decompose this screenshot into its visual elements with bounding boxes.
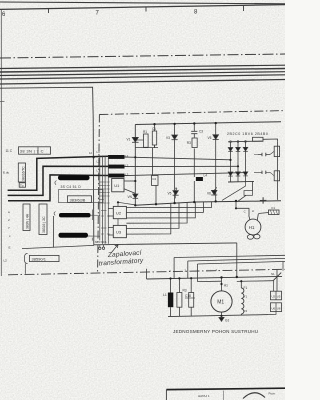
svg-text:C18: C18: [185, 294, 191, 298]
svg-text:S1: S1: [271, 272, 275, 276]
svg-text:L3: L3: [125, 172, 129, 176]
svg-text:R1: R1: [143, 130, 147, 134]
svg-text:U2: U2: [272, 295, 276, 299]
svg-text:V5: V5: [208, 136, 212, 140]
svg-text:L2: L2: [4, 259, 8, 263]
svg-text:E.du: E.du: [3, 171, 10, 175]
svg-text:H1: H1: [249, 225, 255, 230]
svg-text:V3: V3: [166, 136, 170, 140]
svg-text:U3: U3: [116, 230, 122, 235]
svg-text:L2: L2: [125, 163, 129, 167]
svg-text:E: E: [9, 246, 11, 250]
svg-text:383N | 4A: 383N | 4A: [26, 213, 30, 229]
svg-text:Pozn: Pozn: [269, 392, 276, 396]
svg-text:F1: F1: [244, 286, 248, 290]
svg-text:R3: R3: [183, 289, 187, 293]
svg-text:383/6|3B: 383/6|3B: [70, 197, 86, 202]
svg-text:V1: V1: [127, 138, 131, 142]
svg-text:A1: A1: [224, 284, 228, 288]
svg-text:VN: VN: [128, 195, 133, 199]
svg-text:L1: L1: [125, 154, 129, 158]
svg-text:F1: F1: [272, 206, 276, 210]
svg-text:U6: U6: [272, 307, 276, 311]
svg-text:38316 | 2C: 38316 | 2C: [42, 216, 46, 233]
svg-text:C2: C2: [152, 177, 156, 181]
svg-text:Y2: Y2: [244, 309, 248, 313]
svg-text:L3: L3: [97, 169, 101, 173]
svg-text:38316/7C: 38316/7C: [21, 166, 25, 181]
svg-text:Y1: Y1: [244, 295, 248, 299]
svg-text:U5: U5: [277, 295, 281, 299]
svg-text:60.3 60.1: 60.3 60.1: [95, 240, 107, 244]
svg-text:V5: V5: [168, 192, 172, 196]
svg-text:C1: C1: [152, 127, 156, 131]
svg-text:Tu: Tu: [20, 183, 24, 187]
svg-text:11 C: 11 C: [6, 149, 13, 153]
svg-text:2B2C0 1BV6 2B4B0: 2B2C0 1BV6 2B4B0: [227, 132, 268, 136]
svg-text:G1: G1: [225, 319, 229, 323]
svg-text:3S C4 51 D: 3S C4 51 D: [61, 185, 82, 189]
svg-text:V6: V6: [207, 191, 211, 195]
svg-text:L2: L2: [97, 160, 101, 164]
svg-text:M1: M1: [217, 299, 224, 305]
svg-text:JEDNOSMERNY POHON SUSTRUHU: JEDNOSMERNY POHON SUSTRUHU: [173, 329, 258, 334]
svg-text:C3: C3: [199, 130, 203, 134]
svg-text:H: H: [252, 209, 254, 213]
svg-text:L4: L4: [204, 174, 208, 178]
svg-text:38590/1: 38590/1: [32, 256, 47, 261]
svg-text:U1: U1: [114, 183, 120, 188]
svg-text:L1: L1: [97, 150, 101, 154]
svg-text:U2: U2: [116, 211, 122, 216]
svg-text:U8: U8: [277, 307, 281, 311]
svg-text:R3: R3: [187, 141, 191, 145]
svg-text:L1: L1: [163, 293, 167, 297]
svg-text:C: C: [244, 209, 246, 213]
svg-text:38 3N | 7 C: 38 3N | 7 C: [20, 149, 44, 154]
svg-text:HATAJ 1: HATAJ 1: [198, 394, 210, 398]
